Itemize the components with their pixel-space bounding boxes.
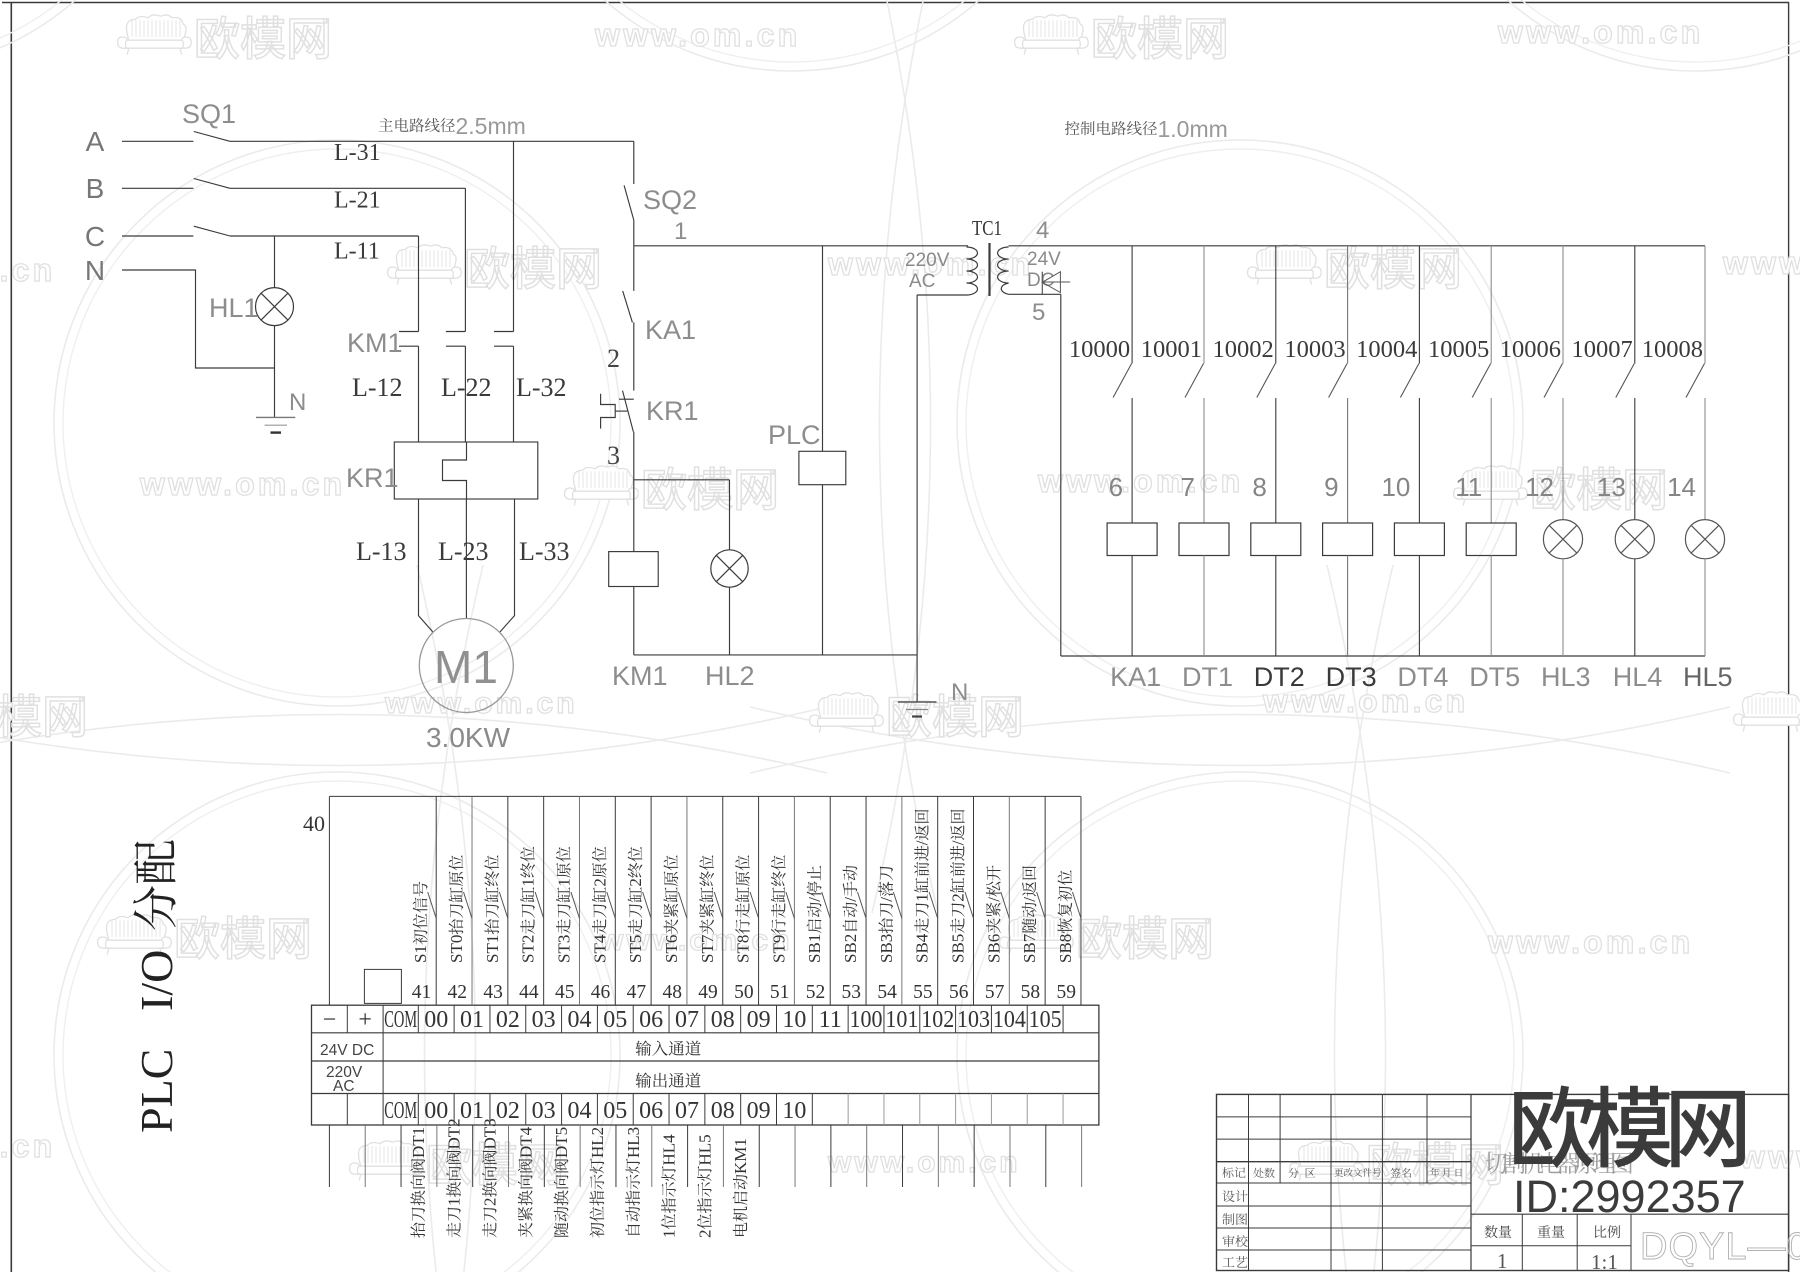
svg-text:2: 2 bbox=[590, 878, 609, 887]
leader tick 47 bbox=[643, 892, 652, 918]
output label 随动换向阀DT5 bbox=[552, 1127, 571, 1237]
input label SB6夹紧/松开 bbox=[984, 865, 1003, 963]
svg-text:08: 08 bbox=[711, 1098, 735, 1124]
svg-text:01: 01 bbox=[460, 1007, 484, 1033]
output stub wire 17 bbox=[937, 1125, 939, 1187]
wire B bbox=[122, 187, 193, 189]
svg-text:HL3: HL3 bbox=[624, 1127, 643, 1158]
input label ST5走刀缸2终位 bbox=[626, 847, 645, 963]
svg-text:57: 57 bbox=[985, 982, 1005, 1003]
svg-text:PLC: PLC bbox=[768, 420, 821, 450]
input label ST6夹紧缸原位 bbox=[662, 855, 681, 963]
svg-text:www.om.cn: www.om.cn bbox=[0, 1128, 55, 1164]
svg-text:/: / bbox=[984, 897, 1003, 902]
input label ST3走刀缸1原位 bbox=[554, 847, 573, 963]
svg-text:07: 07 bbox=[675, 1007, 699, 1033]
svg-text:2: 2 bbox=[695, 1230, 714, 1239]
wire drop L-22 bbox=[464, 188, 466, 331]
leader tick 54 bbox=[893, 892, 902, 918]
svg-text:10: 10 bbox=[782, 1007, 806, 1033]
svg-text:AC: AC bbox=[909, 271, 935, 292]
svg-text:103: 103 bbox=[957, 1007, 990, 1033]
TC1 secondary winding bbox=[998, 247, 1009, 294]
contactor KM1 main contact 3 bbox=[494, 331, 514, 333]
big label PLC I/O allocation bbox=[131, 950, 182, 1133]
svg-text:DQYL—0: DQYL—0 bbox=[1640, 1226, 1800, 1268]
input wire 46 bbox=[614, 796, 616, 1005]
label main circuit wire gauge bbox=[379, 118, 393, 132]
svg-text:ST2: ST2 bbox=[519, 935, 538, 963]
output label 夹紧换向阀DT4 bbox=[516, 1126, 535, 1237]
svg-text:59: 59 bbox=[1056, 982, 1076, 1003]
svg-text:DC: DC bbox=[1027, 270, 1054, 291]
coil DT3 bbox=[1323, 523, 1373, 556]
svg-text:L-11: L-11 bbox=[334, 239, 380, 265]
switch SQ1 pole B bbox=[194, 179, 230, 189]
leader tick 44 bbox=[535, 892, 544, 918]
DC bottom bus bbox=[1061, 655, 1705, 657]
svg-text:40: 40 bbox=[303, 811, 325, 836]
leader tick 48 bbox=[678, 892, 687, 918]
svg-text:SB4: SB4 bbox=[913, 933, 932, 963]
wire A to SQ2 column bbox=[230, 140, 634, 142]
svg-text:8: 8 bbox=[1252, 472, 1266, 502]
wire SQ2 to KA1 contact bbox=[633, 246, 635, 291]
svg-text:www.om.cn: www.om.cn bbox=[1487, 924, 1693, 960]
svg-text:43: 43 bbox=[483, 982, 503, 1003]
input label ST0抬刀缸原位 bbox=[447, 855, 466, 963]
leader tick 42 bbox=[464, 892, 473, 918]
svg-text:ST1: ST1 bbox=[483, 935, 502, 963]
table outer border bbox=[312, 1005, 1099, 1125]
wire below lamp HL4 bbox=[1634, 559, 1636, 656]
svg-text:DT1: DT1 bbox=[1182, 662, 1233, 692]
control bus top left segment bbox=[634, 245, 968, 247]
svg-text:ST7: ST7 bbox=[698, 934, 717, 963]
svg-text:TC1: TC1 bbox=[972, 216, 1002, 240]
svg-text:PLC: PLC bbox=[131, 1049, 182, 1133]
PLC box bbox=[799, 451, 846, 484]
svg-text:KM1: KM1 bbox=[731, 1138, 750, 1174]
DC left drop wire bbox=[1060, 294, 1062, 656]
svg-text:HL3: HL3 bbox=[1541, 662, 1591, 692]
svg-text:KM1: KM1 bbox=[347, 328, 403, 358]
svg-text:11: 11 bbox=[1455, 472, 1482, 502]
svg-text:HL5: HL5 bbox=[695, 1134, 714, 1165]
output stub wire 13 bbox=[794, 1125, 796, 1187]
wire N bbox=[122, 270, 275, 368]
svg-text:B: B bbox=[86, 173, 105, 204]
terminal box above plus bbox=[364, 969, 401, 1003]
output label 走刀1换向阀DT2 bbox=[445, 1118, 464, 1237]
svg-text:COM: COM bbox=[384, 1007, 417, 1033]
svg-text:ST6: ST6 bbox=[662, 935, 681, 963]
svg-text:/: / bbox=[841, 897, 860, 902]
output label 初位指示灯HL2 bbox=[588, 1127, 607, 1238]
svg-text:10005: 10005 bbox=[1428, 336, 1489, 363]
wire below coil DT5 bbox=[1490, 556, 1492, 657]
motor M1 circle bbox=[419, 619, 513, 713]
ground symbol at N bbox=[898, 701, 937, 703]
input label ST4走刀缸2原位 bbox=[590, 847, 609, 963]
coil KA1 bbox=[1107, 523, 1157, 556]
svg-text:06: 06 bbox=[639, 1098, 663, 1124]
input wire 51 bbox=[793, 796, 795, 1005]
svg-text:www.om.cn: www.om.cn bbox=[1739, 1139, 1800, 1175]
svg-text:10008: 10008 bbox=[1642, 336, 1703, 363]
svg-text:11: 11 bbox=[819, 1007, 842, 1033]
svg-text:SQ2: SQ2 bbox=[643, 185, 697, 215]
svg-text:14: 14 bbox=[1667, 472, 1696, 502]
svg-text:4: 4 bbox=[1036, 217, 1049, 244]
svg-text:C: C bbox=[85, 221, 105, 252]
svg-text:07: 07 bbox=[675, 1098, 699, 1124]
input label SB1启动/停止 bbox=[805, 866, 824, 963]
TC1 primary winding bbox=[967, 247, 978, 295]
output label 电机启动KM1 bbox=[731, 1138, 750, 1236]
svg-text:06: 06 bbox=[639, 1007, 663, 1033]
wire to coil DT2 bbox=[1275, 398, 1277, 523]
wire below lamp HL3 bbox=[1562, 559, 1564, 656]
input label SB2自动/手动 bbox=[841, 866, 860, 963]
input wire 48 bbox=[686, 796, 688, 1005]
svg-text:L-33: L-33 bbox=[519, 537, 570, 566]
svg-text:L-32: L-32 bbox=[516, 373, 567, 402]
leader tick 43 bbox=[499, 892, 508, 918]
svg-text:DT4: DT4 bbox=[516, 1126, 535, 1158]
svg-text:HL2: HL2 bbox=[588, 1127, 607, 1158]
title block left grid rows bbox=[1217, 1116, 1472, 1118]
coil DT2 bbox=[1251, 523, 1301, 556]
svg-text:7: 7 bbox=[1181, 472, 1195, 502]
leader tick 49 bbox=[714, 892, 723, 918]
svg-text:SB6: SB6 bbox=[984, 934, 1003, 963]
svg-text:54: 54 bbox=[877, 982, 897, 1003]
svg-text:44: 44 bbox=[519, 982, 539, 1003]
svg-text:10003: 10003 bbox=[1284, 336, 1345, 363]
svg-text:03: 03 bbox=[532, 1098, 556, 1124]
leader tick 41 bbox=[428, 892, 437, 918]
lamp HL2 bbox=[711, 550, 748, 587]
output stub wire 19 bbox=[1009, 1125, 1011, 1187]
output stub wire 11 bbox=[722, 1125, 724, 1187]
wire to lamp HL5 bbox=[1704, 398, 1706, 520]
leader tick 58 bbox=[1037, 892, 1046, 918]
svg-text:2: 2 bbox=[607, 344, 620, 373]
svg-text:L-31: L-31 bbox=[334, 140, 381, 166]
input wire 54 bbox=[901, 796, 903, 1005]
svg-text:SB1: SB1 bbox=[805, 934, 824, 963]
table column lines row1 bbox=[346, 1005, 348, 1033]
svg-text:09: 09 bbox=[747, 1007, 771, 1033]
output stub wire 18 bbox=[973, 1125, 975, 1187]
svg-text:10004: 10004 bbox=[1356, 336, 1417, 363]
input wires top bus bbox=[329, 795, 1080, 797]
input wire 57 bbox=[1008, 796, 1010, 1005]
svg-text:1: 1 bbox=[660, 1230, 679, 1239]
svg-text:10007: 10007 bbox=[1572, 336, 1633, 363]
svg-text:/: / bbox=[949, 840, 968, 845]
svg-text:10006: 10006 bbox=[1500, 336, 1561, 363]
svg-text:DT4: DT4 bbox=[1397, 662, 1448, 692]
svg-text:1: 1 bbox=[519, 878, 538, 887]
svg-text:10: 10 bbox=[782, 1098, 806, 1124]
title block divider bbox=[1470, 1094, 1472, 1270]
svg-text:HL4: HL4 bbox=[660, 1134, 679, 1166]
wire drop L-32 bbox=[513, 141, 515, 331]
svg-text:04: 04 bbox=[567, 1007, 591, 1033]
N wire below bus to ground bbox=[916, 655, 918, 702]
svg-text:10002: 10002 bbox=[1213, 336, 1274, 363]
lamp HL5 bbox=[1685, 520, 1724, 559]
output label 抬刀换向阀DT1 bbox=[409, 1127, 428, 1238]
svg-text:05: 05 bbox=[603, 1098, 627, 1124]
svg-text:+: + bbox=[358, 1007, 372, 1033]
input wire 41 bbox=[435, 796, 437, 1005]
lamp HL1 bbox=[256, 288, 294, 326]
wire C to L-12 drop bbox=[230, 235, 419, 237]
svg-text:DT3: DT3 bbox=[481, 1118, 500, 1149]
coil DT4 bbox=[1394, 523, 1444, 556]
svg-text:DT3: DT3 bbox=[1326, 662, 1377, 692]
input wire 43 bbox=[507, 796, 509, 1005]
svg-text:46: 46 bbox=[591, 982, 611, 1003]
input wire 45 bbox=[578, 796, 580, 1005]
input wire 47 bbox=[650, 796, 652, 1005]
svg-text:6: 6 bbox=[1109, 472, 1123, 502]
svg-text:58: 58 bbox=[1021, 982, 1041, 1003]
svg-text:DT2: DT2 bbox=[1254, 662, 1305, 692]
svg-text:www.om.cn: www.om.cn bbox=[1037, 463, 1243, 499]
wire L-23 to motor bbox=[465, 499, 467, 619]
svg-text:ID:2992357: ID:2992357 bbox=[1513, 1171, 1746, 1222]
svg-text:/: / bbox=[877, 897, 896, 902]
svg-text:DT2: DT2 bbox=[445, 1118, 464, 1149]
svg-text:www.om.cn: www.om.cn bbox=[139, 466, 345, 502]
input wire 56 bbox=[973, 796, 975, 1005]
svg-text:02: 02 bbox=[496, 1007, 520, 1033]
leader tick 50 bbox=[750, 892, 759, 918]
leader tick 53 bbox=[858, 892, 867, 918]
output stub wire 4 bbox=[472, 1125, 474, 1187]
svg-text:10001: 10001 bbox=[1141, 336, 1202, 363]
thermal relay KR1 heater element bbox=[443, 442, 467, 499]
relay contact KA1 bbox=[623, 291, 633, 323]
svg-text:HL2: HL2 bbox=[705, 661, 755, 691]
watermark circles bbox=[54, 140, 620, 706]
svg-text:220V: 220V bbox=[905, 250, 950, 271]
output stub wire 7 bbox=[579, 1125, 581, 1187]
svg-text:56: 56 bbox=[949, 982, 969, 1003]
svg-text:47: 47 bbox=[627, 982, 647, 1003]
label control circuit wire gauge bbox=[1065, 121, 1080, 135]
svg-text:10000: 10000 bbox=[1069, 336, 1130, 363]
output stub wire 12 bbox=[758, 1125, 760, 1187]
title block left grid columns bbox=[1248, 1094, 1250, 1270]
output stub wire 21 bbox=[1081, 1125, 1083, 1187]
watermark lens arcs bbox=[880, 0, 939, 913]
switch SQ1 pole C bbox=[194, 226, 230, 236]
svg-text:1: 1 bbox=[674, 218, 687, 245]
svg-text:41: 41 bbox=[412, 982, 432, 1003]
wire primary bottom to N bbox=[917, 294, 966, 296]
svg-text:DT1: DT1 bbox=[409, 1127, 428, 1158]
svg-text:ST3: ST3 bbox=[554, 935, 573, 963]
svg-text:SB7: SB7 bbox=[1020, 933, 1039, 963]
wire to coil KA1 bbox=[1131, 398, 1133, 523]
coil DT1 bbox=[1179, 523, 1229, 556]
svg-text:/: / bbox=[913, 840, 932, 845]
svg-text:55: 55 bbox=[913, 982, 933, 1003]
coil KM1 bbox=[609, 552, 659, 587]
svg-text:ST9: ST9 bbox=[769, 935, 788, 963]
wire below coil KA1 bbox=[1131, 556, 1133, 657]
output stub wire 2 bbox=[400, 1125, 402, 1187]
wire below HL1 bbox=[274, 326, 276, 368]
svg-text:13: 13 bbox=[1597, 472, 1626, 502]
N return wire bbox=[916, 295, 918, 655]
svg-text:3: 3 bbox=[607, 441, 620, 470]
svg-text:08: 08 bbox=[711, 1007, 735, 1033]
svg-text:1.0mm: 1.0mm bbox=[1158, 116, 1228, 142]
wire from phase A down to SQ2 bbox=[633, 141, 635, 184]
svg-text:49: 49 bbox=[698, 982, 718, 1003]
site watermark dark logo bbox=[1514, 1086, 1593, 1168]
input label SB5走刀2缸前进/返回 bbox=[949, 810, 968, 963]
wire L-33 to motor bbox=[500, 499, 515, 632]
svg-text:04: 04 bbox=[567, 1098, 591, 1124]
wire to coil DT3 bbox=[1347, 398, 1349, 523]
svg-text:5: 5 bbox=[1032, 299, 1045, 326]
switch SQ2 bbox=[624, 185, 634, 220]
output label 走刀2换向阀DT3 bbox=[481, 1118, 500, 1237]
input label ST8行走缸原位 bbox=[734, 855, 753, 963]
TC1 core bbox=[988, 243, 990, 296]
svg-text:HL1: HL1 bbox=[209, 293, 259, 323]
title block header texts bbox=[1222, 1167, 1233, 1178]
svg-text:00: 00 bbox=[424, 1007, 448, 1033]
svg-text:L-21: L-21 bbox=[334, 188, 381, 214]
title block outer bbox=[1217, 1094, 1789, 1270]
svg-text:ST0: ST0 bbox=[447, 935, 466, 963]
svg-text:52: 52 bbox=[806, 982, 826, 1003]
svg-text:www.om.cn: www.om.cn bbox=[1722, 245, 1800, 281]
svg-text:N: N bbox=[85, 255, 105, 286]
svg-text:1: 1 bbox=[445, 1198, 464, 1207]
input label SB4走刀1缸前进/返回 bbox=[913, 810, 932, 963]
svg-text:−: − bbox=[323, 1007, 337, 1033]
svg-text:DT5: DT5 bbox=[1469, 662, 1520, 692]
svg-text:48: 48 bbox=[662, 982, 682, 1003]
control bottom bus bbox=[634, 654, 917, 656]
svg-text:KR1: KR1 bbox=[646, 396, 699, 426]
input label ST2走刀缸1终位 bbox=[519, 847, 538, 963]
wire to coil DT4 bbox=[1418, 398, 1420, 523]
quantity weight scale row bbox=[1471, 1213, 1789, 1215]
wire L-13 to motor bbox=[419, 499, 434, 632]
contactor KM1 main contact 2 bbox=[446, 331, 466, 333]
input wire 58 bbox=[1044, 796, 1046, 1005]
wire below PLC box bbox=[822, 485, 824, 655]
leader tick 45 bbox=[571, 892, 580, 918]
svg-text:12: 12 bbox=[1525, 472, 1554, 502]
leader tick 57 bbox=[1001, 892, 1010, 918]
svg-text:N: N bbox=[951, 679, 968, 706]
input label SB8恢复初位 bbox=[1056, 870, 1075, 963]
output stub wire 9 bbox=[651, 1125, 653, 1187]
input wire 53 bbox=[865, 796, 867, 1005]
svg-text:SB2: SB2 bbox=[841, 934, 860, 963]
svg-text:ST8: ST8 bbox=[734, 935, 753, 963]
wire below HL2 bbox=[729, 587, 731, 655]
title drawing name bbox=[1485, 1152, 1507, 1174]
input label ST7夹紧缸终位 bbox=[698, 855, 717, 963]
svg-text:KM1: KM1 bbox=[612, 661, 668, 691]
svg-text:50: 50 bbox=[734, 982, 754, 1003]
output label 1位指示灯HL4 bbox=[660, 1134, 679, 1238]
svg-text:101: 101 bbox=[885, 1007, 918, 1033]
svg-text:www.om.cn: www.om.cn bbox=[0, 252, 55, 288]
svg-text:SQ1: SQ1 bbox=[182, 99, 236, 129]
wire to lamp HL3 bbox=[1562, 398, 1564, 520]
svg-text:05: 05 bbox=[603, 1007, 627, 1033]
wire C bbox=[122, 235, 193, 237]
svg-text:I/O: I/O bbox=[131, 950, 182, 1011]
svg-text:24V: 24V bbox=[1027, 249, 1061, 270]
svg-text:ST4: ST4 bbox=[590, 934, 609, 963]
svg-text:SB8: SB8 bbox=[1056, 934, 1075, 963]
svg-text:COM: COM bbox=[384, 1098, 417, 1124]
svg-text:HL4: HL4 bbox=[1613, 662, 1663, 692]
lamp HL1 drop wire bbox=[274, 236, 276, 288]
output stub wire 16 bbox=[902, 1125, 904, 1187]
input label SB7随动/返回 bbox=[1020, 866, 1039, 963]
page frame bbox=[10, 2, 12, 1272]
leader tick 52 bbox=[822, 892, 831, 918]
svg-text:102: 102 bbox=[921, 1007, 954, 1033]
branch to HL2 bbox=[634, 479, 730, 481]
svg-text:AC: AC bbox=[333, 1078, 355, 1095]
wire below KM1 coil bbox=[633, 587, 635, 655]
input label ST1抬刀缸终位 bbox=[483, 855, 502, 963]
svg-text:SB3: SB3 bbox=[877, 934, 896, 963]
divider 24VDC cell bbox=[382, 1033, 384, 1094]
table column lines row4 bbox=[346, 1094, 348, 1126]
diode bbox=[1042, 281, 1071, 283]
wire to lamp HL4 bbox=[1634, 398, 1636, 520]
input wire 52 bbox=[829, 796, 831, 1005]
svg-text:ST5: ST5 bbox=[626, 935, 645, 963]
svg-text:42: 42 bbox=[448, 982, 468, 1003]
DC top bus bbox=[1009, 245, 1705, 247]
svg-text:10: 10 bbox=[1381, 472, 1410, 502]
wire drop L-12 bbox=[418, 236, 420, 332]
wire below coil DT3 bbox=[1347, 556, 1349, 657]
ground symbol below HL1 bbox=[274, 368, 276, 417]
wire below coil DT4 bbox=[1418, 556, 1420, 657]
leader tick 46 bbox=[607, 892, 616, 918]
input wire minus bbox=[328, 796, 330, 1005]
svg-text:SB5: SB5 bbox=[949, 934, 968, 963]
watermark logos and urls bbox=[118, 15, 192, 55]
coil DT5 bbox=[1466, 523, 1516, 556]
thermal relay KR1 box bbox=[394, 442, 538, 499]
svg-text:KA1: KA1 bbox=[1110, 662, 1161, 692]
svg-text:HL5: HL5 bbox=[1683, 662, 1733, 692]
wire to coil DT1 bbox=[1203, 398, 1205, 523]
input label SB3抬刀/落刀 bbox=[877, 866, 896, 963]
svg-text:S1: S1 bbox=[411, 945, 430, 963]
